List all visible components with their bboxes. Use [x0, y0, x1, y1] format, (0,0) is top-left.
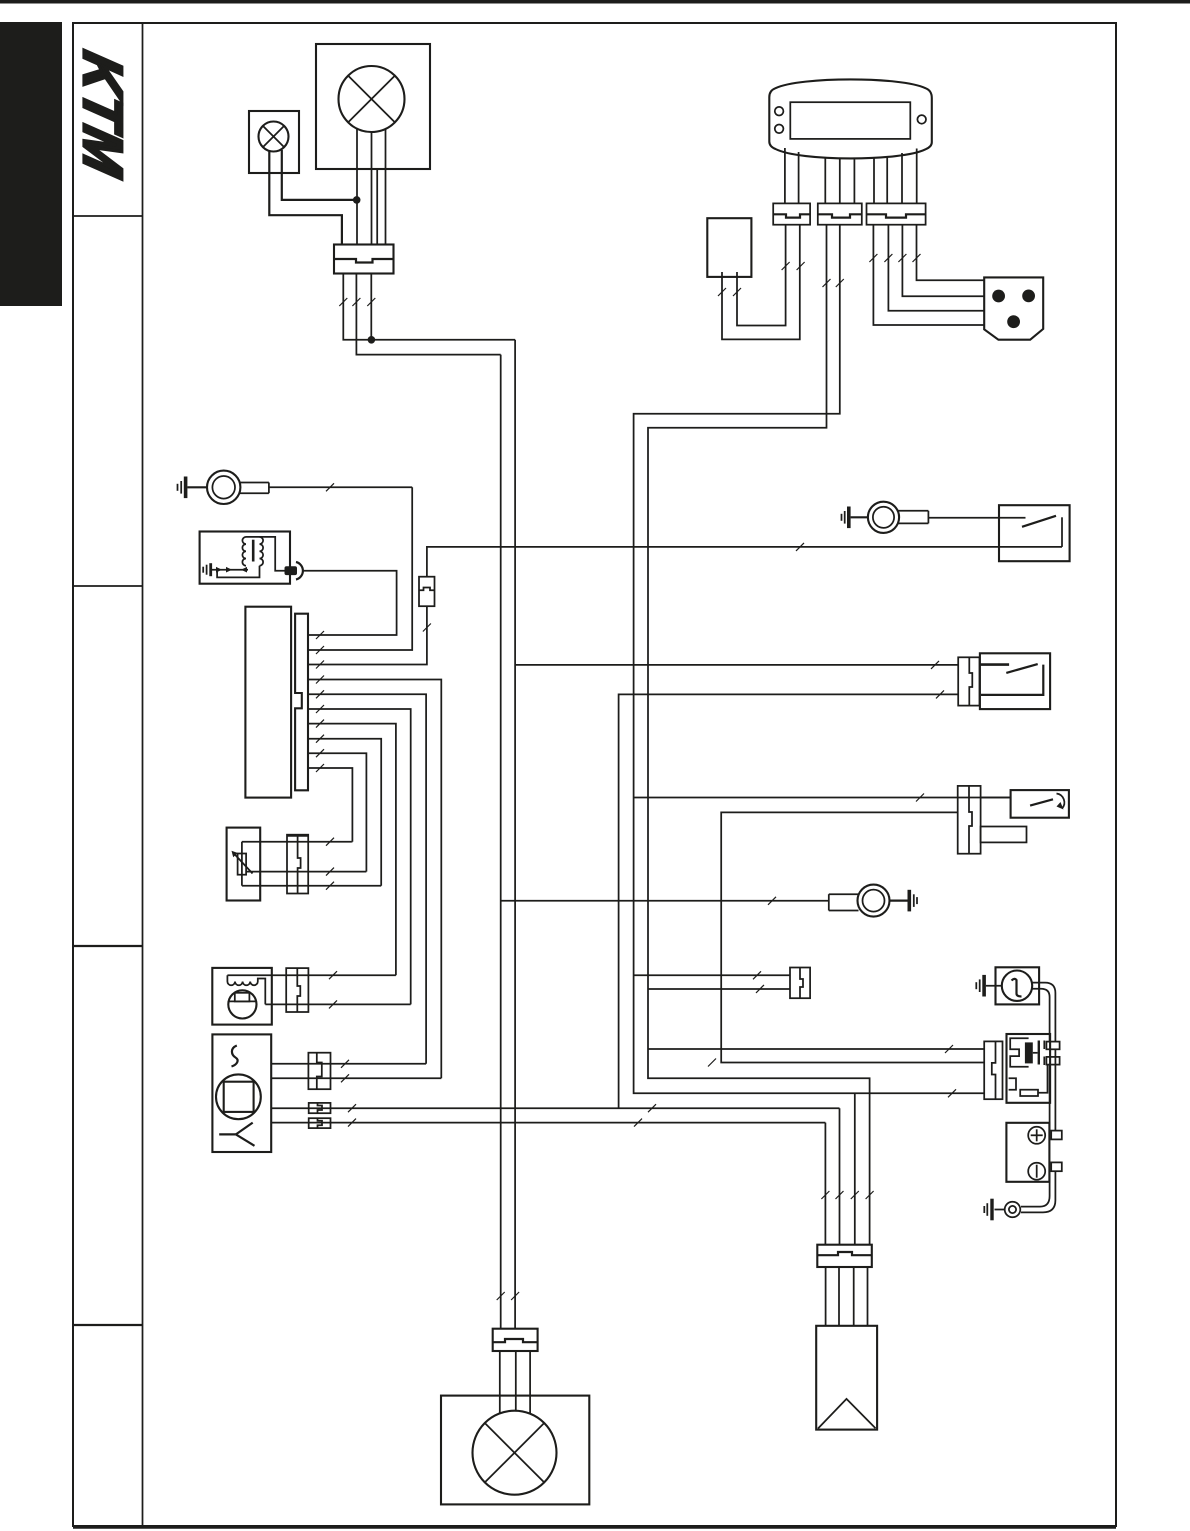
svg-text:KTM: KTM	[72, 46, 134, 183]
